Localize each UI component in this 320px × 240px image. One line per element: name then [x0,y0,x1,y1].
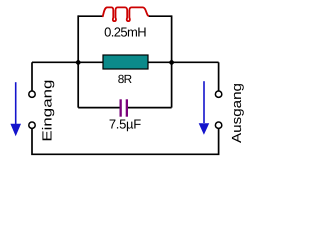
svg-text:8R: 8R [118,72,132,86]
svg-text:7.5µF: 7.5µF [109,116,141,131]
wire bottom branch left segment [78,107,120,109]
svg-text:Eingang: Eingang [40,80,55,142]
label Eingang [40,80,55,142]
terminal input upper [29,91,35,97]
svg-text:Ausgang: Ausgang [229,83,244,143]
terminal input lower [29,122,35,128]
wire left vertical branch [77,15,79,107]
resistor R1 8R [103,55,148,69]
wire input upper lead [31,62,33,90]
wire bottom branch right segment [128,107,172,109]
arrow output direction [199,81,210,135]
terminal output upper [215,91,221,97]
label 8R [118,72,132,86]
svg-text:0.25mH: 0.25mH [104,24,147,39]
capacitor C1 right plate [126,99,128,116]
terminal output lower [215,122,221,128]
label Ausgang [229,83,244,143]
label 7.5uF [109,116,141,131]
label 0.25mH [104,24,147,39]
wire top branch left segment [78,15,103,17]
junction right node [168,59,174,65]
wire input lower lead / bottom rail [32,129,219,155]
arrow input direction [10,82,21,136]
capacitor C1 left plate [120,99,122,116]
wire middle branch [32,61,219,63]
wire right vertical branch [171,15,173,107]
inductor L1 0.25mH [103,7,150,21]
wire top branch right segment [149,15,172,17]
junction left node [75,59,81,65]
wire output upper lead [218,62,220,90]
